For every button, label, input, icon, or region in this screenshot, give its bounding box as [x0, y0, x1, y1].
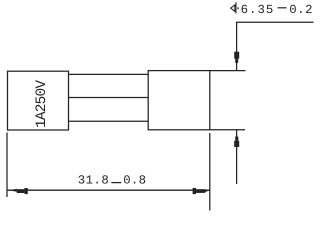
right extension line (length dimension) — [209, 133, 211, 211]
arrow right: wedge tip — [205, 189, 208, 192]
diameter leader vertical line lower — [236, 130, 238, 184]
minus dash of top tolerance — [278, 7, 287, 9]
extension line of cap bottom edge (diameter dimension) — [210, 129, 245, 131]
svg-text:6.35: 6.35 — [241, 3, 275, 17]
arrow left: base nub — [24, 188, 27, 194]
left extension line (length dimension) — [6, 133, 8, 198]
svg-text:0.8: 0.8 — [123, 173, 146, 187]
fuse right end cap — [148, 71, 210, 130]
diameter leader horizontal line — [236, 21, 314, 23]
diameter symbol (phi): triangle + bar + tick — [231, 2, 238, 13]
fuse body tube top edge (wire) — [69, 73, 149, 75]
fuse body middle element wire — [69, 97, 149, 99]
arrow down: narrow block — [235, 59, 238, 63]
arrow up: wide block — [234, 141, 239, 147]
length dimension line 31.8 — [7, 189, 209, 191]
minus dash of bottom tolerance (low) — [111, 182, 121, 184]
fuse body tube bottom edge (wire) — [69, 120, 149, 122]
arrow up (diameter, tip at cap bottom): narrow block — [235, 137, 238, 141]
arrow left (length dim): wedge tip — [9, 189, 17, 192]
arrow left: bar — [17, 189, 25, 193]
arrow right: base nub — [193, 188, 197, 194]
diameter leader vertical line upper — [236, 22, 238, 70]
svg-text:31.8: 31.8 — [78, 173, 110, 187]
svg-text:1A250V: 1A250V — [34, 80, 50, 128]
extension line of cap top edge (diameter dimension) — [210, 70, 246, 72]
arrow right: bar — [196, 189, 205, 193]
svg-text:0.2: 0.2 — [289, 3, 313, 17]
arrow down (diameter, tip at cap top): wide block — [234, 52, 239, 59]
fuse left end cap — [8, 71, 69, 130]
